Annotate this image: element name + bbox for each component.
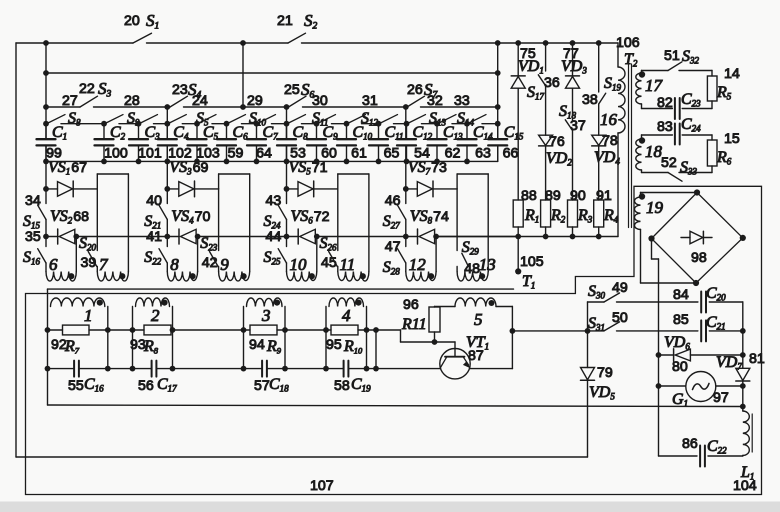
wire C20 to corner [709, 302, 743, 331]
svg-text:S22: S22 [144, 249, 162, 267]
svg-text:S2: S2 [304, 11, 318, 32]
thyristor VS1 [46, 181, 97, 197]
wire VD5 column upper [587, 331, 589, 368]
svg-text:C23: C23 [681, 91, 701, 109]
svg-text:VD2: VD2 [546, 150, 572, 168]
svg-text:42: 42 [202, 255, 218, 271]
svg-text:81: 81 [749, 351, 765, 367]
switch S28 [398, 249, 406, 272]
svg-text:28: 28 [124, 93, 140, 109]
wire VD7 to G1 row [742, 381, 744, 407]
node trunk4 row A [403, 104, 409, 110]
svg-text:C22: C22 [707, 438, 727, 456]
svg-text:16: 16 [600, 110, 618, 129]
svg-text:C15: C15 [504, 124, 524, 142]
node trunk VS row section 4 [403, 186, 409, 192]
node VS4 output [195, 234, 201, 240]
svg-text:96: 96 [403, 297, 419, 313]
inductor L1 [743, 407, 752, 457]
node column C21 join [740, 328, 746, 334]
svg-text:6: 6 [49, 255, 58, 274]
wire VS8 output leg [435, 237, 437, 272]
wire VD6 row left [659, 354, 674, 356]
node G1 row right [740, 383, 746, 389]
svg-text:C9: C9 [323, 124, 339, 142]
svg-text:S12: S12 [361, 110, 379, 128]
svg-text:56: 56 [138, 378, 154, 394]
diode VD5 [581, 368, 595, 381]
wire VS6 output leg [316, 237, 318, 272]
diode VD7 [736, 368, 750, 381]
svg-text:106: 106 [616, 35, 640, 51]
wire T2 primary to rail [617, 133, 619, 237]
svg-text:C1: C1 [52, 124, 67, 142]
svg-text:30: 30 [312, 93, 328, 109]
resistor R1 [513, 200, 523, 227]
wire middle leg section 1 [96, 189, 98, 251]
wire G1 right lead [716, 385, 743, 387]
group 2 rail dots [130, 327, 176, 371]
wire C22 row left [659, 455, 698, 457]
inductor winding 3 (work coil) [247, 298, 283, 307]
svg-text:S14: S14 [457, 110, 475, 128]
switch S22 [159, 249, 167, 272]
wire C22 row right [708, 455, 743, 457]
capacitor C5 [188, 124, 207, 162]
wire top bus into T2 primary [617, 43, 619, 67]
svg-text:90: 90 [570, 188, 586, 204]
inductor winding 19 [634, 193, 640, 284]
wire VS4 output leg [197, 237, 199, 272]
node junction S17 column on top bus [543, 40, 549, 46]
capacitor C21 [701, 320, 706, 341]
wire over-link section 2 [219, 174, 250, 272]
svg-text:94: 94 [249, 337, 265, 353]
svg-text:47: 47 [385, 239, 401, 255]
node trunk1 row A [43, 104, 49, 110]
node junction C15 column on top bus [495, 40, 501, 46]
wire group 3 right rail [284, 307, 286, 369]
svg-text:C21: C21 [706, 314, 726, 332]
wire commutation row segment 4 [436, 236, 518, 238]
svg-text:R6: R6 [716, 149, 732, 167]
rectifier bridge 98 [652, 193, 743, 284]
svg-text:79: 79 [597, 365, 613, 381]
svg-text:32: 32 [427, 93, 443, 109]
svg-text:62: 62 [445, 146, 461, 162]
svg-text:R9: R9 [266, 338, 282, 356]
capacitor C18 [244, 361, 286, 377]
inductor winding 2 (work coil) [136, 298, 170, 307]
capacitor C3 [129, 124, 148, 162]
switch S23 [210, 252, 219, 267]
inductor winding 11 [338, 272, 369, 282]
capacitor C4 [158, 124, 177, 162]
inductor winding 18 [636, 135, 642, 173]
capacitor C16 [48, 361, 108, 377]
svg-text:63: 63 [475, 146, 491, 162]
svg-text:61: 61 [351, 146, 367, 162]
wire trunk section 4 mid [405, 145, 407, 203]
wire 18 top left [642, 134, 673, 136]
wire middle leg lower section 3 [337, 267, 339, 272]
svg-text:S29: S29 [462, 239, 480, 257]
wire G1 left lead [659, 385, 686, 387]
wire coil5 right [496, 307, 512, 369]
svg-text:S26: S26 [320, 235, 338, 253]
svg-text:VS874: VS874 [410, 208, 449, 226]
rail junction dots [43, 159, 470, 165]
svg-text:20: 20 [124, 13, 140, 29]
inductor winding 5 [455, 298, 496, 307]
wire bridge left jog down [652, 239, 659, 457]
svg-text:83: 83 [657, 119, 673, 135]
wire R6 down [711, 166, 713, 173]
svg-text:22: 22 [79, 81, 95, 97]
svg-text:49: 49 [612, 280, 628, 296]
wire R row link 3-4 [285, 329, 326, 331]
capacitor C8 [277, 124, 296, 162]
wire C21 to column [709, 330, 743, 332]
wire trunk4 upper [405, 107, 407, 139]
wire 17 top [642, 70, 669, 72]
wire commutation rail to T2 primary [436, 236, 618, 238]
svg-text:VD1: VD1 [518, 58, 544, 76]
svg-text:85: 85 [673, 312, 689, 328]
node trunk VS2 row section 4 [403, 234, 409, 240]
node junction S19 column on top bus [596, 40, 602, 46]
wire R11 top to coil 5 [435, 306, 456, 308]
wire to R5 [711, 71, 713, 77]
svg-text:97: 97 [713, 390, 729, 406]
svg-text:S19: S19 [604, 75, 622, 93]
node junction trunk1 on top bus [43, 40, 49, 46]
svg-text:98: 98 [691, 250, 707, 266]
wire trunk3 upper [286, 107, 288, 139]
wire R5 down [711, 101, 713, 109]
svg-text:40: 40 [146, 193, 162, 209]
wire S31 row from emitter column [512, 330, 587, 332]
resistor R2 [541, 200, 551, 227]
svg-text:S33: S33 [680, 159, 698, 177]
wire group 4 right rail [366, 307, 368, 369]
node C row junction [373, 366, 379, 372]
svg-text:C18: C18 [269, 376, 289, 394]
svg-text:14: 14 [724, 66, 740, 82]
svg-text:R2: R2 [550, 207, 566, 225]
svg-text:57: 57 [254, 378, 270, 394]
wire trunk section 3 mid [286, 145, 288, 203]
svg-text:84: 84 [673, 287, 689, 303]
wire group 4 left rail [325, 307, 327, 369]
wire C15 column upper [497, 43, 499, 139]
node trunk VS row section 1 [43, 186, 49, 192]
svg-text:35: 35 [25, 229, 41, 245]
switch S24 [278, 205, 286, 246]
wire commutation row segment 3 [317, 236, 406, 238]
node trunk2 row A [164, 104, 170, 110]
wire S17 column upper [545, 43, 547, 71]
svg-text:59: 59 [228, 146, 244, 162]
inductor winding 9 [219, 272, 250, 282]
inductor winding 6 [46, 272, 76, 282]
svg-text:VS672: VS672 [291, 208, 330, 226]
wire R row to VT1 area [367, 329, 377, 331]
svg-text:S1: S1 [146, 11, 159, 32]
wire C row to collector [367, 368, 441, 370]
svg-text:S28: S28 [383, 259, 401, 277]
svg-text:R3: R3 [577, 207, 593, 225]
switch S16 [38, 249, 46, 272]
node bridge right [740, 235, 746, 241]
resistor R3 [568, 200, 578, 227]
wire trunk section 1 mid [45, 145, 47, 203]
wire 17 bottom left [642, 108, 673, 110]
svg-text:R1: R1 [524, 207, 539, 225]
wire group 3 left rail [243, 307, 245, 369]
wire 17 bottom right [682, 108, 712, 110]
inductor winding 8 [167, 272, 197, 282]
svg-text:S17: S17 [527, 84, 545, 102]
node R2 rail [543, 234, 549, 240]
group 1 rail dots [45, 327, 111, 371]
svg-text:R5: R5 [716, 84, 732, 102]
wire R1 to rail [517, 227, 519, 237]
wire VD1 column [517, 43, 519, 76]
wire trunk section 2 mid [166, 145, 168, 203]
node R3 rail [570, 234, 576, 240]
node junction x243 on top bus [240, 40, 246, 46]
svg-text:52: 52 [661, 155, 677, 171]
svg-text:25: 25 [284, 82, 300, 98]
svg-text:C7: C7 [263, 124, 279, 142]
svg-text:38: 38 [582, 92, 598, 108]
svg-text:VS470: VS470 [171, 208, 210, 226]
switch S25 [278, 249, 286, 272]
svg-text:39: 39 [81, 255, 97, 271]
svg-text:C2: C2 [110, 124, 126, 142]
diode VD2 [539, 135, 553, 146]
switch S32 [668, 62, 712, 71]
wire VD3 column [572, 43, 574, 76]
wire C row link 3-4 [285, 368, 326, 370]
svg-text:R11: R11 [401, 316, 427, 333]
svg-text:VD4: VD4 [594, 149, 620, 167]
capacitor C13 [428, 124, 447, 162]
wire second bus y=73 [46, 72, 498, 74]
thyristor VS5 [287, 181, 338, 197]
svg-text:11: 11 [340, 255, 356, 274]
svg-text:33: 33 [454, 93, 470, 109]
thyristor VS2 [46, 229, 76, 244]
switch S20 [88, 252, 97, 267]
node bridge top [694, 189, 700, 195]
wire 18 bottom right [679, 172, 712, 174]
svg-text:101: 101 [138, 146, 162, 162]
svg-text:91: 91 [596, 188, 612, 204]
svg-text:29: 29 [247, 93, 263, 109]
wire 19 top to bridge [641, 192, 698, 194]
wire outer bus Q ring [26, 186, 762, 494]
capacitor C6 [217, 124, 236, 162]
svg-text:S23: S23 [200, 235, 218, 253]
resistor R4 [594, 200, 604, 227]
svg-text:64: 64 [256, 146, 272, 162]
capacitor C2 [95, 124, 114, 162]
svg-text:86: 86 [682, 436, 698, 452]
wire VD1 column lower [517, 88, 519, 200]
wire middle leg lower section 4 [456, 267, 458, 272]
capacitor C11 [369, 124, 388, 162]
wire middle leg section 3 [337, 189, 339, 251]
wire VD3 to S18 [572, 88, 574, 120]
svg-text:T1: T1 [522, 273, 535, 291]
svg-text:R8: R8 [143, 338, 159, 356]
svg-text:S16: S16 [23, 249, 41, 267]
node bridge left [648, 235, 654, 241]
svg-text:41: 41 [146, 229, 162, 245]
row B junction dots [43, 121, 501, 127]
svg-text:105: 105 [520, 254, 544, 270]
svg-text:76: 76 [549, 134, 565, 150]
switch S19 [599, 93, 606, 135]
node bridge bottom [693, 280, 699, 286]
switch S3 [80, 96, 170, 107]
svg-text:36: 36 [544, 75, 560, 91]
svg-text:27: 27 [62, 93, 78, 109]
svg-text:107: 107 [310, 478, 334, 494]
node junction VD3 column on top bus [570, 40, 576, 46]
svg-text:104: 104 [733, 478, 757, 494]
svg-text:C6: C6 [233, 124, 249, 142]
wire trunk1 upper [45, 43, 47, 139]
wire group 2 left rail [132, 307, 134, 369]
switch S4 [170, 96, 289, 107]
node VD6 row right [740, 352, 746, 358]
svg-text:S30: S30 [588, 283, 606, 301]
switch S30 [588, 293, 698, 302]
inductor winding 7 [97, 272, 128, 282]
capacitor C23 [675, 98, 680, 119]
switch S33 [642, 173, 683, 182]
svg-text:S15: S15 [23, 213, 41, 231]
wire middle leg lower section 1 [96, 267, 98, 272]
thyristor VS7 [406, 181, 457, 197]
capacitor C22 [700, 446, 705, 467]
svg-text:55: 55 [68, 378, 84, 394]
svg-text:89: 89 [545, 188, 561, 204]
node C15 column on second bus [495, 70, 501, 76]
wire middle leg lower section 2 [218, 267, 220, 272]
switch S26 [329, 252, 338, 267]
switch S31 [588, 322, 698, 331]
node base junction [432, 339, 438, 345]
node trunk VS row section 3 [284, 186, 290, 192]
wire group 1 right rail [107, 307, 109, 369]
svg-text:43: 43 [266, 193, 282, 209]
wire over-link section 4 [457, 174, 488, 272]
node trunk VS row section 2 [164, 186, 170, 192]
svg-text:C19: C19 [351, 376, 371, 394]
switch S17 [538, 75, 545, 135]
node VS8 output [433, 234, 439, 240]
wire group 1 left rail stub [47, 289, 49, 306]
node R4 rail [596, 234, 602, 240]
switch S15 [38, 205, 46, 246]
wire S19 column upper [598, 43, 600, 92]
wire VS2 output leg [75, 237, 77, 272]
switch S2 [288, 33, 618, 43]
svg-text:2: 2 [151, 306, 160, 325]
svg-text:87: 87 [468, 348, 484, 364]
inductor winding 17 [636, 71, 642, 109]
svg-text:C20: C20 [706, 285, 726, 303]
wire middle leg section 2 [218, 189, 220, 251]
wire emitter to column [470, 368, 513, 370]
svg-text:S27: S27 [383, 213, 401, 231]
wire capacitor bank bottom rail [46, 160, 498, 162]
wire R4 to rail [598, 227, 600, 237]
wire to R6 [711, 135, 713, 140]
wire base feed jog [376, 330, 435, 342]
node feeder row A [240, 104, 246, 110]
svg-text:15: 15 [724, 131, 740, 147]
thyristor VS4 [167, 229, 197, 244]
wire commutation row segment 1 [76, 236, 167, 238]
wire trunk2 upper [166, 107, 168, 139]
svg-text:78: 78 [602, 133, 618, 149]
thyristor VS6 [287, 229, 317, 244]
wire C row link 1-2 [108, 368, 133, 370]
wire top bus y=43 left segment with junction to outer return [16, 42, 133, 44]
svg-text:VD3: VD3 [561, 58, 587, 76]
wire R11 bottom [434, 332, 436, 342]
node row A right end [495, 104, 501, 110]
svg-text:95: 95 [326, 337, 342, 353]
switch S21 [159, 205, 167, 246]
svg-text:10: 10 [290, 255, 308, 274]
diode VD4 [592, 135, 606, 146]
wire junction link [375, 330, 377, 369]
svg-text:R7: R7 [64, 338, 80, 356]
node trunk1 on second bus [43, 70, 49, 76]
svg-text:21: 21 [277, 13, 293, 29]
svg-text:45: 45 [321, 255, 337, 271]
terminal T1 105 [515, 268, 521, 274]
svg-text:34: 34 [25, 193, 41, 209]
resistor R9 [244, 325, 286, 335]
inductor winding 16 T2 primary [618, 67, 625, 133]
node trunk VS2 row section 2 [164, 234, 170, 240]
svg-text:12: 12 [409, 255, 427, 274]
capacitor C7 [247, 124, 266, 162]
wire VD7 column upper [742, 331, 744, 368]
wire R3 to rail [572, 227, 574, 237]
svg-text:S3: S3 [98, 79, 112, 100]
switch S1 [133, 33, 288, 43]
wire middle leg section 4 [456, 189, 458, 251]
svg-text:80: 80 [672, 359, 688, 375]
wire VD4 to R4 [598, 146, 600, 200]
switch S7 [407, 96, 498, 107]
wire over-link section 3 [338, 174, 369, 272]
svg-text:19: 19 [646, 198, 664, 217]
svg-text:S21: S21 [144, 213, 161, 231]
wire VD6 row right [690, 354, 742, 356]
svg-text:37: 37 [570, 118, 586, 134]
switch S27 [398, 205, 406, 246]
node bottom rail right [740, 404, 746, 410]
